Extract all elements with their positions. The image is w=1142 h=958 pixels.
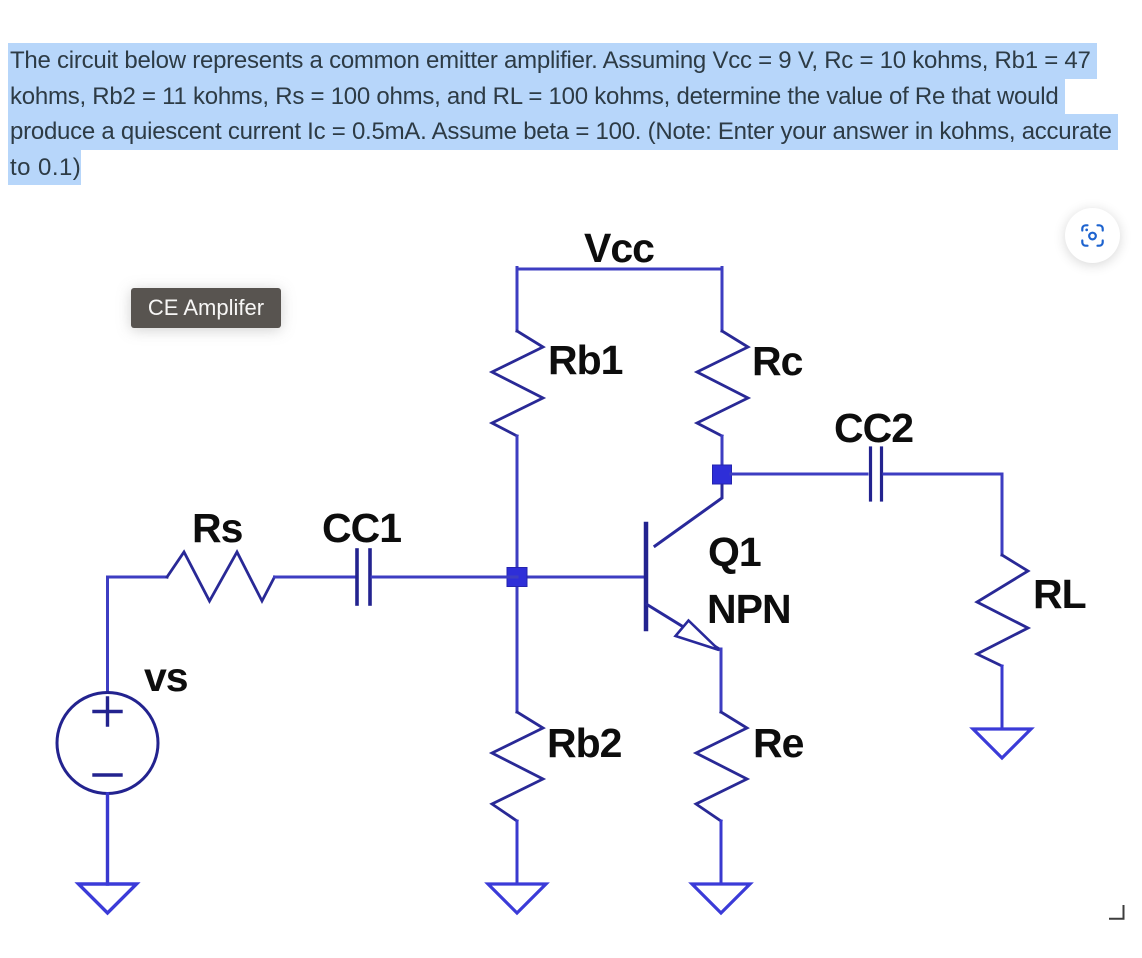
vs plus sign — [94, 698, 121, 725]
wire vs to Rs — [108, 577, 168, 691]
wire node B to Rb2 — [516, 577, 519, 712]
label Rb1 — [548, 337, 622, 384]
resistor Rb2 — [492, 712, 543, 821]
capture icon lens circle — [1089, 233, 1096, 240]
label CC1 — [322, 505, 401, 552]
wire CC1 to node B — [372, 576, 517, 579]
label RL — [1033, 571, 1086, 618]
wire emitter to Re — [720, 649, 723, 712]
transistor Q1 base bar — [644, 524, 649, 629]
source vs circle — [57, 693, 158, 794]
resistor Rb1 — [492, 331, 543, 436]
capture icon dot — [1085, 229, 1088, 232]
ground (RL) — [973, 729, 1031, 758]
wire Rb1 to node B — [516, 436, 519, 577]
capacitor CC1 — [357, 550, 370, 604]
wire collector node to CC2 — [731, 473, 867, 476]
resistor RL — [977, 555, 1028, 666]
ground (Re) — [692, 884, 750, 913]
label Rs — [192, 505, 242, 552]
wire vs to ground — [106, 794, 109, 884]
label CC2 — [834, 405, 913, 452]
corner resize mark — [1104, 899, 1126, 921]
transistor Q1 emitter lead — [647, 605, 720, 650]
label Vcc — [584, 225, 654, 272]
label Rc — [752, 338, 802, 385]
capacitor CC2 — [871, 448, 882, 500]
wire base rail — [517, 576, 645, 579]
wire Vcc to Rb1 — [516, 268, 519, 332]
wire Rs to CC1 — [275, 576, 356, 579]
node B junction — [507, 568, 527, 587]
wire Rc to collector node — [721, 436, 724, 466]
ground (Rb2) — [488, 884, 546, 913]
resistor Rs — [167, 552, 275, 601]
label Rb2 — [547, 720, 621, 767]
question text highlighted — [8, 43, 1142, 185]
capture icon brackets — [1082, 225, 1102, 245]
screenshot capture icon button — [1065, 208, 1120, 263]
transistor Q1 collector lead — [655, 483, 722, 546]
vs minus sign — [94, 773, 121, 776]
label Q1 — [708, 529, 761, 576]
collector node junction — [713, 465, 732, 484]
label NPN — [707, 586, 791, 633]
wire Rb2 to ground — [516, 821, 519, 884]
label Re — [753, 720, 803, 767]
wire Vcc to Rc — [721, 268, 724, 332]
wire RL to ground — [1001, 666, 1004, 729]
wire CC2 to RL — [884, 474, 1002, 555]
tooltip CE Amplifer — [131, 288, 281, 328]
wire Re to ground — [720, 821, 723, 884]
resistor Re — [696, 712, 747, 821]
resistor Rc — [697, 331, 748, 436]
ground (vs) — [79, 884, 137, 913]
label vs — [144, 654, 188, 701]
transistor Q1 emitter arrow — [676, 621, 720, 651]
wire Vcc top rail — [517, 268, 722, 271]
